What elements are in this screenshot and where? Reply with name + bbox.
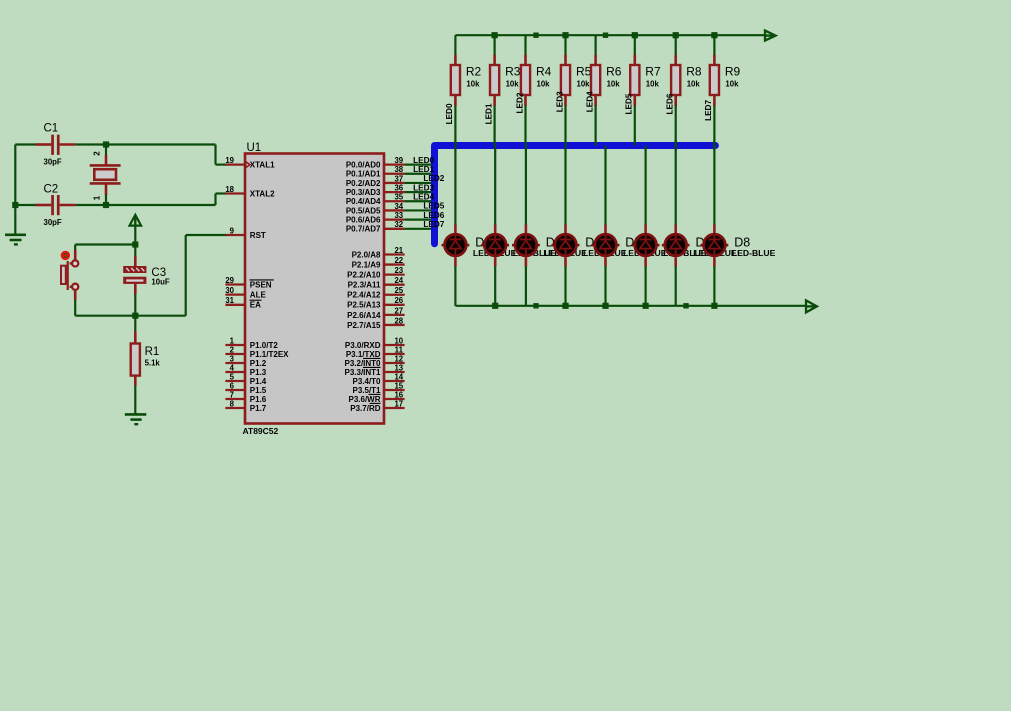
svg-text:LED7: LED7 [704, 100, 713, 121]
svg-text:39: 39 [394, 156, 403, 165]
svg-text:LED1: LED1 [484, 103, 493, 124]
svg-text:15: 15 [394, 381, 403, 390]
svg-text:35: 35 [394, 193, 403, 202]
svg-text:R7: R7 [645, 65, 661, 79]
svg-text:P0.6/AD6: P0.6/AD6 [346, 216, 381, 225]
svg-text:P3.2/INT0: P3.2/INT0 [344, 359, 381, 368]
svg-text:12: 12 [394, 354, 403, 363]
svg-text:10uF: 10uF [151, 278, 169, 287]
svg-text:10k: 10k [725, 79, 739, 88]
svg-text:P2.6/A14: P2.6/A14 [347, 311, 381, 320]
svg-text:25: 25 [394, 286, 403, 295]
svg-text:29: 29 [225, 276, 234, 285]
svg-text:P3.3/INT1: P3.3/INT1 [344, 368, 381, 377]
svg-text:P0.5/AD5: P0.5/AD5 [346, 206, 381, 215]
svg-text:24: 24 [394, 276, 403, 285]
svg-text:P1.5: P1.5 [250, 386, 267, 395]
svg-text:P2.7/A15: P2.7/A15 [347, 321, 381, 330]
svg-text:P1.7: P1.7 [250, 404, 267, 413]
svg-text:LED2: LED2 [423, 174, 444, 183]
svg-text:26: 26 [394, 296, 403, 305]
svg-text:2: 2 [230, 345, 235, 354]
svg-text:1: 1 [93, 195, 102, 200]
svg-text:7: 7 [230, 390, 234, 399]
svg-text:R3: R3 [505, 65, 521, 79]
svg-text:10k: 10k [577, 79, 591, 88]
svg-text:LED3: LED3 [413, 183, 434, 192]
svg-text:27: 27 [394, 306, 403, 315]
svg-text:17: 17 [394, 399, 403, 408]
svg-text:10: 10 [394, 336, 403, 345]
svg-text:28: 28 [394, 316, 403, 325]
svg-text:P3.1/TXD: P3.1/TXD [346, 350, 381, 359]
svg-text:R6: R6 [606, 65, 622, 79]
svg-text:10k: 10k [506, 79, 520, 88]
svg-text:EA: EA [250, 301, 261, 310]
svg-text:30pF: 30pF [44, 158, 62, 167]
svg-text:P0.0/AD0: P0.0/AD0 [346, 161, 381, 170]
svg-text:C2: C2 [44, 184, 59, 196]
svg-text:P1.2: P1.2 [250, 359, 267, 368]
svg-text:6: 6 [230, 381, 235, 390]
svg-text:P3.5/T1: P3.5/T1 [352, 386, 381, 395]
svg-text:U1: U1 [247, 142, 262, 154]
svg-text:P1.1/T2EX: P1.1/T2EX [250, 350, 289, 359]
svg-text:P0.4/AD4: P0.4/AD4 [346, 197, 381, 206]
svg-text:LED0: LED0 [413, 156, 434, 165]
svg-text:RST: RST [250, 231, 266, 240]
svg-text:16: 16 [394, 390, 403, 399]
svg-text:P0.2/AD2: P0.2/AD2 [346, 179, 381, 188]
svg-text:LED7: LED7 [423, 220, 444, 229]
svg-text:P1.4: P1.4 [250, 377, 267, 386]
svg-text:37: 37 [394, 174, 403, 183]
svg-text:AT89C52: AT89C52 [243, 426, 279, 436]
svg-text:10k: 10k [607, 79, 621, 88]
svg-text:P3.7/RD: P3.7/RD [350, 404, 380, 413]
svg-text:21: 21 [394, 246, 403, 255]
svg-text:LED3: LED3 [555, 91, 564, 112]
svg-text:2: 2 [93, 151, 102, 156]
svg-text:30pF: 30pF [44, 218, 62, 227]
svg-text:36: 36 [394, 184, 403, 193]
svg-text:14: 14 [394, 372, 403, 381]
svg-text:P1.6: P1.6 [250, 395, 267, 404]
svg-text:P3.4/T0: P3.4/T0 [352, 377, 381, 386]
svg-text:ALE: ALE [250, 291, 267, 300]
svg-text:P2.5/A13: P2.5/A13 [347, 301, 381, 310]
svg-text:10k: 10k [466, 79, 480, 88]
svg-text:32: 32 [394, 220, 403, 229]
svg-text:5: 5 [230, 372, 235, 381]
svg-text:30: 30 [225, 286, 234, 295]
svg-text:P2.1/A9: P2.1/A9 [352, 260, 381, 269]
svg-text:XTAL1: XTAL1 [250, 161, 275, 170]
svg-text:LED4: LED4 [585, 91, 594, 112]
svg-text:P2.2/A10: P2.2/A10 [347, 271, 381, 280]
svg-text:18: 18 [225, 185, 234, 194]
svg-text:P0.1/AD1: P0.1/AD1 [346, 170, 381, 179]
svg-text:R1: R1 [145, 346, 160, 358]
svg-text:13: 13 [394, 363, 403, 372]
svg-text:P3.6/WR: P3.6/WR [348, 395, 380, 404]
svg-text:10k: 10k [646, 79, 660, 88]
svg-text:P3.0/RXD: P3.0/RXD [345, 341, 381, 350]
svg-text:R8: R8 [686, 65, 702, 79]
svg-text:P1.0/T2: P1.0/T2 [250, 341, 279, 350]
svg-text:P2.4/A12: P2.4/A12 [347, 291, 381, 300]
svg-text:LED0: LED0 [445, 103, 454, 124]
svg-text:38: 38 [394, 165, 403, 174]
svg-text:33: 33 [394, 211, 403, 220]
svg-text:R4: R4 [536, 65, 552, 79]
svg-text:34: 34 [394, 202, 403, 211]
svg-text:P1.3: P1.3 [250, 368, 267, 377]
svg-text:P0.3/AD3: P0.3/AD3 [346, 188, 381, 197]
svg-text:P0.7/AD7: P0.7/AD7 [346, 225, 381, 234]
svg-text:4: 4 [230, 363, 235, 372]
svg-text:PSEN: PSEN [250, 280, 272, 289]
svg-text:10k: 10k [687, 79, 701, 88]
svg-text:23: 23 [394, 266, 403, 275]
svg-text:LED6: LED6 [423, 211, 444, 220]
svg-text:P2.0/A8: P2.0/A8 [352, 250, 381, 259]
svg-text:XTAL2: XTAL2 [250, 189, 275, 198]
svg-text:1: 1 [230, 336, 235, 345]
svg-text:5.1k: 5.1k [145, 359, 161, 368]
svg-text:10k: 10k [537, 79, 551, 88]
svg-text:22: 22 [394, 256, 403, 265]
svg-text:LED1: LED1 [413, 165, 434, 174]
svg-text:19: 19 [225, 156, 234, 165]
svg-text:LED6: LED6 [666, 93, 675, 114]
svg-text:LED5: LED5 [625, 93, 634, 114]
svg-text:LED4: LED4 [413, 192, 434, 201]
svg-text:LED-BLUE: LED-BLUE [732, 248, 776, 258]
svg-text:3: 3 [230, 354, 235, 363]
svg-text:R9: R9 [725, 65, 741, 79]
svg-text:8: 8 [230, 399, 235, 408]
svg-text:9: 9 [230, 226, 235, 235]
svg-text:P2.3/A11: P2.3/A11 [348, 281, 381, 290]
svg-text:C1: C1 [44, 123, 59, 135]
svg-text:LED5: LED5 [423, 202, 444, 211]
svg-text:R2: R2 [466, 65, 482, 79]
svg-text:LED2: LED2 [515, 92, 524, 113]
svg-text:R5: R5 [576, 65, 592, 79]
svg-text:31: 31 [225, 296, 234, 305]
svg-text:11: 11 [395, 345, 404, 354]
